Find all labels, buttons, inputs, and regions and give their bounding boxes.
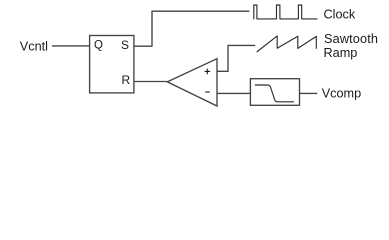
wire comparator output to R pin [134,81,167,83]
SR latch U1 [90,36,134,93]
svg-text:S: S [121,38,129,52]
minus sign inverting input [205,91,210,93]
compensator block U3 [250,79,299,106]
svg-text:Vcntl: Vcntl [20,39,48,53]
svg-text:Q: Q [94,40,103,52]
sawtooth waveform symbol [257,36,317,52]
step response curve inside compensator [255,85,294,102]
wire inverting input to compensator [217,92,250,94]
wire Vcntl to latch Q input [52,45,90,47]
wire compensator to Vcomp [300,92,318,94]
svg-text:Clock: Clock [324,8,356,22]
svg-text:Vcomp: Vcomp [322,87,362,101]
wire S pin to clock source [134,11,249,46]
svg-text:R: R [121,73,130,87]
svg-text:Ramp: Ramp [324,46,358,60]
wire noninverting input to sawtooth source [217,45,255,71]
plus sign noninverting input [205,69,211,75]
clock waveform symbol [254,5,318,19]
svg-text:Sawtooth: Sawtooth [324,32,378,46]
comparator U2 [167,59,217,106]
